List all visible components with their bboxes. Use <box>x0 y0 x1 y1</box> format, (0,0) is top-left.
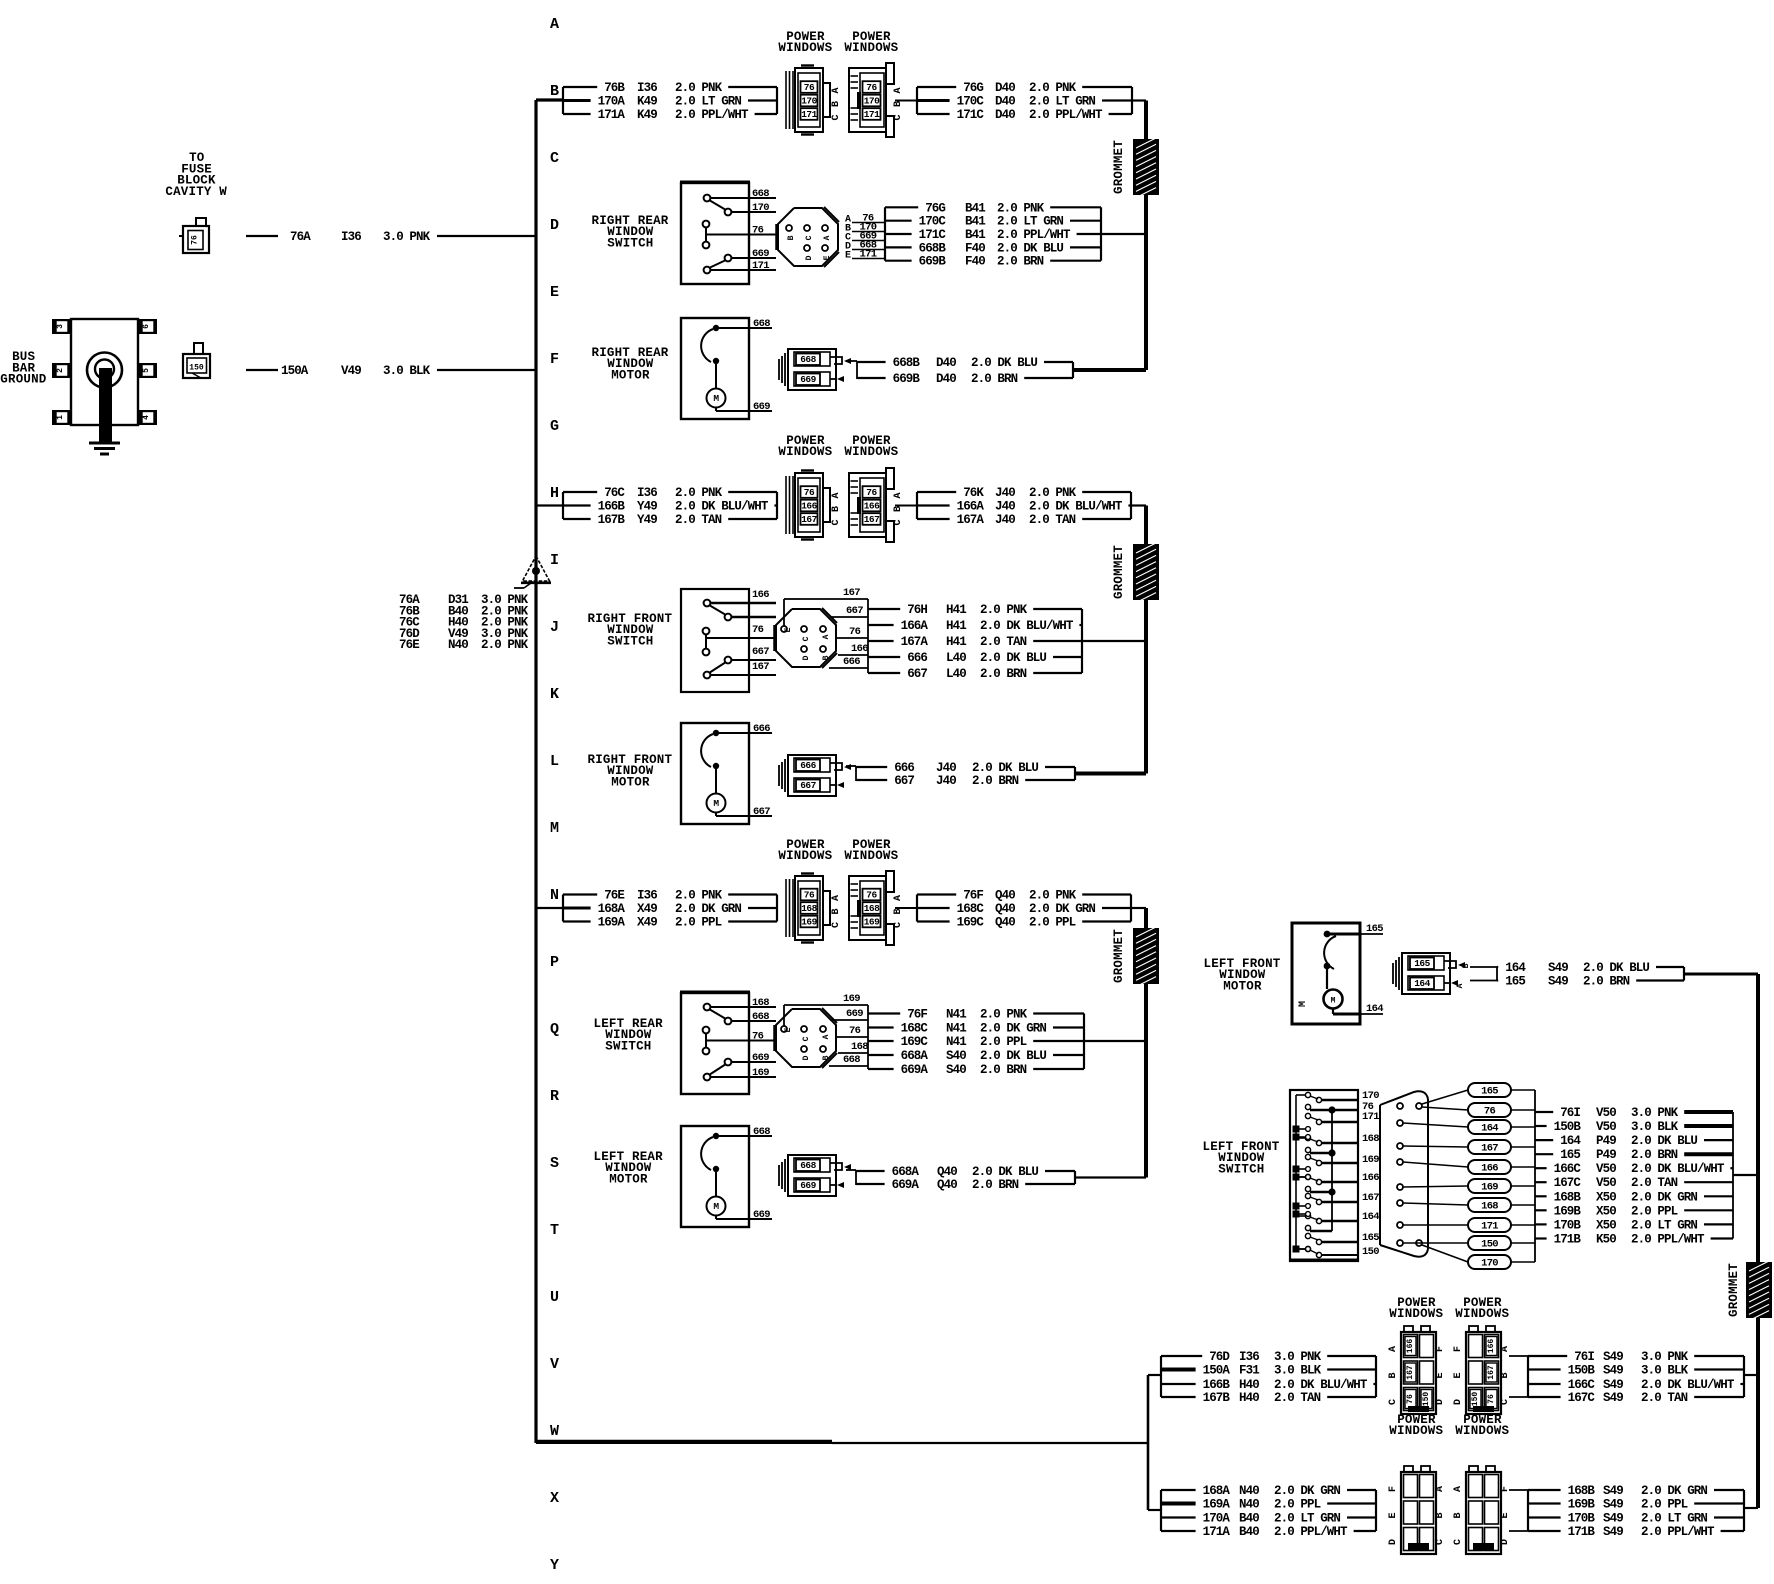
svg-text:2.0 PNK: 2.0 PNK <box>675 81 723 95</box>
svg-text:171A: 171A <box>1203 1525 1231 1539</box>
svg-text:D40: D40 <box>936 356 956 370</box>
svg-text:166A: 166A <box>901 619 929 633</box>
wire group X right: 168B/169B/170B/171B S49 <box>1509 1484 1758 1539</box>
pin letters A B C <box>893 895 904 928</box>
svg-text:2.0 BRN: 2.0 BRN <box>1631 1148 1678 1162</box>
svg-text:2.0 PNK: 2.0 PNK <box>481 638 529 652</box>
svg-text:167B: 167B <box>598 513 626 527</box>
svg-text:X50: X50 <box>1596 1204 1616 1218</box>
svg-text:167: 167 <box>752 661 769 673</box>
svg-text:F: F <box>1453 1346 1464 1352</box>
svg-text:A: A <box>1500 1346 1511 1352</box>
svg-text:V50: V50 <box>1596 1106 1616 1120</box>
svg-text:B41: B41 <box>965 201 985 215</box>
svg-text:I: I <box>550 552 559 569</box>
svg-text:D40: D40 <box>936 372 956 386</box>
svg-text:168: 168 <box>864 903 880 914</box>
svg-text:2.0 PNK: 2.0 PNK <box>675 889 723 903</box>
svg-text:76G: 76G <box>925 201 945 215</box>
svg-text:WINDOWS: WINDOWS <box>1455 1424 1509 1438</box>
svg-text:E: E <box>845 251 851 262</box>
svg-text:668: 668 <box>753 318 770 330</box>
svg-text:C: C <box>831 114 842 120</box>
svg-text:2.0 DK BLU: 2.0 DK BLU <box>1583 961 1649 975</box>
svg-text:D: D <box>805 255 814 260</box>
svg-text:164: 164 <box>1505 961 1526 975</box>
wire far-right riser V4 <box>1756 974 1760 1508</box>
label RIGHT REAR WINDOW SWITCH <box>592 214 669 250</box>
svg-text:N41: N41 <box>946 1022 966 1036</box>
label POWER WINDOWS (pair at N) <box>778 838 898 863</box>
svg-text:3: 3 <box>56 324 65 329</box>
wire group Q: 76F/168C/169C/668A/669A <box>868 1005 1146 1077</box>
svg-text:76: 76 <box>1484 1106 1496 1118</box>
svg-text:3.0 PNK: 3.0 PNK <box>1274 1350 1322 1364</box>
svg-text:76: 76 <box>866 890 877 901</box>
svg-text:H41: H41 <box>946 635 966 649</box>
label TO FUSE BLOCK CAVITY W <box>165 151 227 199</box>
svg-text:2: 2 <box>56 368 65 373</box>
svg-text:2.0 TAN: 2.0 TAN <box>1631 1176 1678 1190</box>
svg-text:168A: 168A <box>598 902 626 916</box>
svg-text:N40: N40 <box>1239 1484 1259 1498</box>
svg-text:H41: H41 <box>946 619 966 633</box>
svg-text:D: D <box>1500 1539 1511 1545</box>
connector (octagon) left rear switch <box>775 1008 837 1068</box>
svg-text:S49: S49 <box>1603 1512 1623 1526</box>
svg-text:D: D <box>1453 1399 1464 1405</box>
splice wire list 76A-76E <box>399 593 529 652</box>
svg-text:167A: 167A <box>901 635 929 649</box>
svg-text:170: 170 <box>1481 1258 1498 1270</box>
label RIGHT FRONT WINDOW SWITCH <box>588 612 673 648</box>
svg-text:H: H <box>550 485 559 502</box>
svg-text:669A: 669A <box>901 1063 929 1077</box>
pin letters A B C <box>893 492 904 525</box>
svg-text:B: B <box>550 83 559 100</box>
svg-text:B: B <box>831 908 842 914</box>
svg-text:M: M <box>713 1201 719 1212</box>
svg-text:2.0 PPL/WHT: 2.0 PPL/WHT <box>1641 1525 1715 1539</box>
label LEFT FRONT WINDOW SWITCH <box>1203 1140 1280 1176</box>
svg-text:2.0 LT GRN: 2.0 LT GRN <box>1641 1512 1707 1526</box>
svg-text:B: B <box>893 101 904 107</box>
svg-text:2.0 BRN: 2.0 BRN <box>980 1063 1027 1077</box>
svg-text:76: 76 <box>804 487 815 498</box>
svg-text:667: 667 <box>753 806 770 818</box>
svg-text:D: D <box>802 655 811 660</box>
svg-text:2.0 TAN: 2.0 TAN <box>1641 1391 1688 1405</box>
wire group X left: 168A/169A/170A/171A <box>1161 1484 1376 1539</box>
svg-text:171C: 171C <box>957 108 985 122</box>
switch left rear window <box>680 992 776 1094</box>
svg-text:2.0 PNK: 2.0 PNK <box>1029 889 1077 903</box>
svg-text:S49: S49 <box>1603 1378 1623 1392</box>
svg-text:C: C <box>1388 1399 1399 1405</box>
svg-text:2.0 PPL/WHT: 2.0 PPL/WHT <box>1274 1525 1348 1539</box>
svg-text:171: 171 <box>1362 1111 1379 1123</box>
svg-text:F: F <box>1500 1486 1511 1492</box>
svg-text:A: A <box>831 87 842 93</box>
svg-text:165: 165 <box>1362 1232 1379 1244</box>
svg-text:167: 167 <box>1487 1365 1496 1380</box>
svg-text:V50: V50 <box>1596 1176 1616 1190</box>
svg-text:S49: S49 <box>1603 1391 1623 1405</box>
svg-text:2.0 LT GRN: 2.0 LT GRN <box>675 95 741 109</box>
svg-text:669: 669 <box>752 1052 769 1064</box>
svg-text:5: 5 <box>142 368 151 373</box>
svg-text:150: 150 <box>1362 1246 1379 1258</box>
svg-text:WINDOWS: WINDOWS <box>844 445 898 459</box>
svg-text:K: K <box>550 686 559 703</box>
svg-text:150: 150 <box>1481 1239 1498 1251</box>
svg-text:A: A <box>893 895 904 901</box>
svg-text:2.0 BRN: 2.0 BRN <box>980 667 1027 681</box>
octagon fan leads 167/667/76/166/666 <box>784 587 868 668</box>
svg-text:76: 76 <box>804 890 815 901</box>
svg-text:J40: J40 <box>936 761 956 775</box>
svg-text:B: B <box>1500 1372 1511 1378</box>
svg-text:Q40: Q40 <box>995 902 1015 916</box>
svg-text:X50: X50 <box>1596 1218 1616 1232</box>
svg-text:E: E <box>784 627 793 632</box>
svg-text:A: A <box>822 634 831 639</box>
svg-text:A: A <box>893 87 904 93</box>
svg-text:76I: 76I <box>1560 1106 1580 1120</box>
connector left rear motor (668/669) <box>779 1155 851 1196</box>
svg-text:S40: S40 <box>946 1063 966 1077</box>
svg-text:168C: 168C <box>901 1022 929 1036</box>
svg-text:E: E <box>1500 1512 1511 1518</box>
connector C7 power windows (6-cav) at V left <box>1388 1326 1446 1414</box>
svg-text:M: M <box>713 393 719 404</box>
svg-text:76: 76 <box>1487 1394 1496 1404</box>
wire 150A V49 3.0 BLK (ground) <box>246 364 536 378</box>
svg-text:76: 76 <box>752 224 764 236</box>
svg-text:H41: H41 <box>946 603 966 617</box>
svg-text:166A: 166A <box>957 500 985 514</box>
svg-text:669: 669 <box>752 248 769 260</box>
wire group H left: 76C/166B/167B <box>563 486 777 527</box>
svg-text:Y49: Y49 <box>637 500 657 514</box>
label BUS BAR GROUND <box>0 350 47 387</box>
svg-text:X49: X49 <box>637 916 657 930</box>
svg-text:168B: 168B <box>1554 1190 1582 1204</box>
bus bar ground block G200 <box>52 319 157 425</box>
svg-text:2.0 PPL: 2.0 PPL <box>1631 1204 1678 1218</box>
svg-text:WINDOWS: WINDOWS <box>844 41 898 55</box>
svg-text:2.0 PPL: 2.0 PPL <box>675 916 722 930</box>
connector 150 (ground lead) <box>183 343 210 378</box>
svg-text:165: 165 <box>1366 923 1383 935</box>
svg-text:2.0 DK BLU/WHT: 2.0 DK BLU/WHT <box>1641 1378 1735 1392</box>
svg-text:N41: N41 <box>946 1035 966 1049</box>
svg-text:168: 168 <box>801 903 817 914</box>
ground symbol <box>89 368 120 454</box>
svg-text:167: 167 <box>1406 1365 1415 1380</box>
svg-text:B41: B41 <box>965 215 985 229</box>
motor left rear window (M) <box>681 1126 772 1227</box>
switch right front window <box>681 589 776 692</box>
svg-text:168: 168 <box>851 1041 868 1053</box>
svg-text:S49: S49 <box>1603 1498 1623 1512</box>
pin letters A B C <box>831 492 842 525</box>
label LEFT FRONT WINDOW MOTOR <box>1204 957 1281 993</box>
label POWER WINDOWS (pair at H) <box>778 434 898 459</box>
svg-text:SWITCH: SWITCH <box>607 236 653 250</box>
svg-text:76C: 76C <box>604 486 625 500</box>
wire right riser V2 (H to L) <box>1144 506 1148 774</box>
grommet (upper) <box>1112 138 1159 198</box>
svg-text:2.0 PPL: 2.0 PPL <box>980 1035 1027 1049</box>
svg-text:76F: 76F <box>907 1008 927 1022</box>
svg-text:171B: 171B <box>1568 1525 1596 1539</box>
svg-text:C: C <box>893 114 904 120</box>
svg-text:J40: J40 <box>995 486 1015 500</box>
svg-text:C: C <box>802 1036 811 1041</box>
svg-text:2.0 PPL/WHT: 2.0 PPL/WHT <box>997 228 1071 242</box>
svg-text:166: 166 <box>864 501 880 512</box>
svg-text:3.0 BLK: 3.0 BLK <box>383 364 431 378</box>
svg-text:D: D <box>550 217 559 234</box>
svg-text:667: 667 <box>752 646 769 658</box>
label RIGHT FRONT WINDOW MOTOR <box>588 753 673 789</box>
svg-text:668B: 668B <box>893 356 921 370</box>
svg-text:A: A <box>893 492 904 498</box>
svg-text:WINDOWS: WINDOWS <box>778 41 832 55</box>
svg-text:2.0 DK BLU: 2.0 DK BLU <box>972 1165 1038 1179</box>
svg-text:150B: 150B <box>1554 1120 1582 1134</box>
svg-text:171: 171 <box>752 260 769 272</box>
svg-text:2.0 PPL/WHT: 2.0 PPL/WHT <box>1631 1233 1705 1247</box>
svg-text:168: 168 <box>1362 1133 1379 1145</box>
svg-text:S49: S49 <box>1548 961 1568 975</box>
svg-text:171A: 171A <box>598 108 626 122</box>
svg-text:169: 169 <box>752 1067 769 1079</box>
row index letters A-Y <box>550 16 559 1574</box>
svg-text:76I: 76I <box>1574 1350 1594 1364</box>
pin letters A B C <box>831 895 842 928</box>
grommet (middle) <box>1112 543 1159 603</box>
svg-text:169: 169 <box>864 917 880 928</box>
svg-text:169B: 169B <box>1568 1498 1596 1512</box>
svg-text:2.0 DK GRN: 2.0 DK GRN <box>1274 1484 1340 1498</box>
svg-text:166B: 166B <box>1203 1378 1231 1392</box>
svg-text:2.0 DK BLU: 2.0 DK BLU <box>972 761 1038 775</box>
svg-text:C: C <box>802 636 811 641</box>
svg-text:N41: N41 <box>946 1008 966 1022</box>
wire group L: 666/667 J40 <box>846 761 1146 788</box>
svg-text:150B: 150B <box>1568 1364 1596 1378</box>
svg-text:B: B <box>822 655 831 660</box>
svg-text:2.0 DK BLU/WHT: 2.0 DK BLU/WHT <box>675 500 769 514</box>
svg-text:B: B <box>1453 1512 1464 1518</box>
svg-text:166C: 166C <box>1568 1378 1596 1392</box>
svg-text:X: X <box>550 1490 559 1507</box>
svg-text:GROUND: GROUND <box>0 373 47 387</box>
svg-text:668: 668 <box>800 354 816 365</box>
svg-text:668A: 668A <box>901 1049 929 1063</box>
svg-text:W: W <box>550 1423 559 1440</box>
svg-text:Q40: Q40 <box>937 1165 957 1179</box>
svg-text:B: B <box>1388 1372 1399 1378</box>
svg-text:F: F <box>1435 1346 1446 1352</box>
connector C1 power windows (plug) at B <box>786 66 830 135</box>
svg-text:L40: L40 <box>946 651 966 665</box>
wire left riser to W trunk <box>1148 1375 1161 1510</box>
svg-text:164: 164 <box>1362 1211 1379 1223</box>
svg-text:S: S <box>550 1155 559 1172</box>
pin table A-E (76/170/669/668/171) <box>845 213 885 262</box>
pin letters A B C <box>893 87 904 120</box>
svg-text:Q40: Q40 <box>937 1178 957 1192</box>
svg-text:169A: 169A <box>1203 1498 1231 1512</box>
svg-text:164: 164 <box>1366 1003 1383 1015</box>
svg-text:2.0 DK GRN: 2.0 DK GRN <box>1641 1484 1707 1498</box>
svg-text:L: L <box>550 753 559 770</box>
svg-text:GROMMET: GROMMET <box>1112 545 1126 599</box>
svg-text:76: 76 <box>1406 1394 1415 1404</box>
svg-text:A: A <box>831 895 842 901</box>
svg-text:170A: 170A <box>598 95 626 109</box>
svg-text:669: 669 <box>753 1209 770 1221</box>
svg-text:K49: K49 <box>637 108 657 122</box>
svg-text:1: 1 <box>56 415 65 420</box>
connector right rear motor (668/669) <box>779 349 851 390</box>
svg-text:669B: 669B <box>893 372 921 386</box>
svg-text:U: U <box>550 1289 559 1306</box>
svg-text:B41: B41 <box>965 228 985 242</box>
svg-text:C: C <box>893 922 904 928</box>
svg-text:2.0 LT GRN: 2.0 LT GRN <box>1029 95 1095 109</box>
svg-text:CAVITY W: CAVITY W <box>165 185 227 199</box>
svg-text:2.0 DK BLU/WHT: 2.0 DK BLU/WHT <box>980 619 1074 633</box>
svg-text:166: 166 <box>1362 1172 1379 1184</box>
svg-text:167: 167 <box>1481 1143 1498 1155</box>
svg-text:169: 169 <box>1362 1154 1379 1166</box>
svg-text:170: 170 <box>801 96 817 107</box>
pin letters A B C <box>831 87 842 120</box>
wire group V right: 76I/150B/166C/167C S49 <box>1509 1350 1758 1405</box>
svg-text:167C: 167C <box>1554 1176 1582 1190</box>
svg-text:2.0 DK BLU/WHT: 2.0 DK BLU/WHT <box>1029 500 1123 514</box>
svg-text:168A: 168A <box>1203 1484 1231 1498</box>
svg-text:Q40: Q40 <box>995 916 1015 930</box>
svg-text:F40: F40 <box>965 241 985 255</box>
svg-text:166: 166 <box>1481 1163 1498 1175</box>
svg-text:76H: 76H <box>907 603 927 617</box>
svg-text:A: A <box>1435 1486 1446 1492</box>
svg-text:669B: 669B <box>919 255 947 269</box>
motor left front window (M) <box>1292 923 1383 1024</box>
svg-text:J40: J40 <box>936 774 956 788</box>
svg-text:3.0 PNK: 3.0 PNK <box>383 230 431 244</box>
connector C9 power windows (6-cav) at X left <box>1388 1466 1446 1554</box>
svg-text:668: 668 <box>753 1126 770 1138</box>
svg-text:170C: 170C <box>919 215 947 229</box>
svg-text:3.0 BLK: 3.0 BLK <box>1631 1120 1679 1134</box>
connector C10 power windows (6-cav) at X right <box>1453 1466 1511 1554</box>
svg-text:169C: 169C <box>901 1035 929 1049</box>
svg-text:668: 668 <box>752 1011 769 1023</box>
svg-text:D40: D40 <box>995 95 1015 109</box>
svg-text:169B: 169B <box>1554 1204 1582 1218</box>
wire group B right: 76G/170C/171C <box>895 81 1146 122</box>
svg-text:Q: Q <box>550 1021 559 1038</box>
svg-text:B: B <box>893 506 904 512</box>
svg-text:170: 170 <box>864 96 880 107</box>
svg-text:I36: I36 <box>637 81 657 95</box>
svg-text:C: C <box>1500 1399 1511 1405</box>
wire group H right: 76K/166A/167A <box>895 486 1146 527</box>
svg-text:V: V <box>550 1356 559 1373</box>
wire group V left: 76D/150A/166B/167B <box>1161 1350 1376 1405</box>
svg-text:166: 166 <box>801 501 817 512</box>
svg-text:S40: S40 <box>946 1049 966 1063</box>
switch left front window (master) <box>1289 1090 1379 1261</box>
svg-text:G: G <box>550 418 559 435</box>
svg-text:168C: 168C <box>957 902 985 916</box>
svg-text:171C: 171C <box>919 228 947 242</box>
wire group N left: 76E/168A/169A <box>563 889 777 930</box>
svg-text:669: 669 <box>753 401 770 413</box>
svg-text:V50: V50 <box>1596 1120 1616 1134</box>
svg-text:H40: H40 <box>1239 1391 1259 1405</box>
connector C3 power windows (plug) at H <box>786 471 830 540</box>
svg-text:2.0 PPL/WHT: 2.0 PPL/WHT <box>675 108 749 122</box>
svg-text:2.0 DK BLU: 2.0 DK BLU <box>1631 1134 1697 1148</box>
svg-text:A: A <box>823 235 832 240</box>
svg-text:170: 170 <box>752 202 769 214</box>
svg-text:76: 76 <box>752 624 764 636</box>
svg-text:B: B <box>831 506 842 512</box>
svg-text:165: 165 <box>1414 958 1430 969</box>
connector (octagon) right rear switch <box>777 207 839 267</box>
svg-text:167A: 167A <box>957 513 985 527</box>
svg-text:D40: D40 <box>995 108 1015 122</box>
svg-text:2.0 PPL/WHT: 2.0 PPL/WHT <box>1029 108 1103 122</box>
grommet (lower) <box>1112 927 1159 987</box>
svg-text:D: D <box>1435 1399 1446 1405</box>
svg-text:168: 168 <box>752 997 769 1009</box>
switch right rear window <box>680 182 776 284</box>
wire group LF switch (10 circuits V50/P49/X50/K50) <box>1511 1090 1758 1262</box>
svg-text:2.0 DK BLU: 2.0 DK BLU <box>980 1049 1046 1063</box>
svg-text:666: 666 <box>800 760 816 771</box>
svg-text:166: 166 <box>752 589 769 601</box>
svg-text:669: 669 <box>846 1008 863 1020</box>
svg-text:2.0 BRN: 2.0 BRN <box>972 1178 1019 1192</box>
wire right riser V1 (B to F) <box>1144 101 1148 371</box>
label POWER WINDOWS (pair at V) <box>1389 1296 1509 1321</box>
svg-text:2.0 LT GRN: 2.0 LT GRN <box>997 215 1063 229</box>
svg-text:SWITCH: SWITCH <box>1218 1162 1264 1176</box>
svg-text:167: 167 <box>864 514 880 525</box>
svg-text:2.0 PNK: 2.0 PNK <box>675 486 723 500</box>
svg-text:170A: 170A <box>1203 1512 1231 1526</box>
connector C5 power windows (plug) at N <box>786 874 830 943</box>
svg-text:I36: I36 <box>1239 1350 1259 1364</box>
svg-text:667: 667 <box>907 667 927 681</box>
svg-text:165: 165 <box>1481 1086 1498 1098</box>
svg-text:K49: K49 <box>637 95 657 109</box>
svg-text:2.0 BRN: 2.0 BRN <box>997 255 1044 269</box>
splice junction (triangle) on trunk at I <box>514 556 551 588</box>
connector left front motor (165/164) <box>1393 953 1465 994</box>
svg-text:2.0 DK GRN: 2.0 DK GRN <box>1029 902 1095 916</box>
svg-text:M: M <box>550 820 559 837</box>
svg-text:C: C <box>1435 1539 1446 1545</box>
